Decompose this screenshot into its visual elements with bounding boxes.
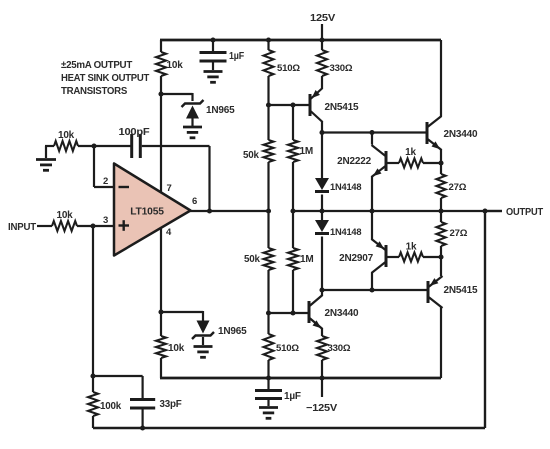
wire inverting feedback bus: [92, 226, 94, 376]
node junction pin4 / zener / 10k bottom: [158, 309, 163, 314]
svg-text:10k: 10k: [167, 60, 184, 71]
note text block: [61, 60, 150, 97]
node junction 1uF bottom on rail: [266, 375, 271, 380]
transistor Q2 2N3440 upper output: [427, 116, 442, 163]
svg-text:27Ω: 27Ω: [450, 228, 468, 239]
resistor 1M upper: [288, 105, 298, 211]
wire output lead: [485, 210, 502, 212]
resistor 1k upper: [388, 158, 442, 167]
svg-text:10k: 10k: [58, 130, 75, 141]
wire bottom -125V rail: [160, 377, 441, 380]
wire 10k to node: [78, 145, 131, 147]
resistor 27 ohm lower: [436, 211, 445, 257]
label 2N5415 upper: [325, 102, 359, 113]
transistor Q3 2N2222 current limit: [372, 133, 387, 212]
svg-text:1M: 1M: [300, 146, 314, 157]
svg-text:4: 4: [166, 227, 172, 238]
capacitor 100pF feedback: [132, 134, 141, 158]
wire input to pin 3: [77, 225, 114, 227]
ground for 1N965 bottom: [194, 347, 213, 358]
ground for 1uF bottom: [259, 400, 278, 418]
node junction 1M upper top: [290, 102, 295, 107]
resistor 10k inverting input: [54, 141, 78, 151]
capacitor 1uF bottom: [255, 378, 282, 399]
wire 100pF to output node: [142, 146, 210, 211]
wire collector feed from rail: [440, 40, 442, 117]
node junction upper base row / 510-50k: [266, 102, 271, 107]
node junction 510ohm top on rail: [266, 37, 271, 42]
svg-text:3: 3: [103, 215, 108, 226]
op-amp plus sign: [119, 220, 130, 231]
node junction 50k resistors: [266, 208, 271, 213]
transistor Q6 2N3440 lower driver: [309, 290, 323, 336]
pin 3 label: [103, 215, 108, 226]
node junction feedback RC top: [90, 373, 95, 378]
wire -125V supply stub: [321, 378, 323, 397]
node junction lower collector node: [319, 287, 324, 292]
label 1uF top: [229, 51, 244, 62]
node junction 33pF bottom: [140, 425, 145, 430]
svg-text:2N2907: 2N2907: [339, 253, 373, 264]
diode D1 1N4148 upper: [315, 133, 329, 212]
label 2N5415 lower: [444, 285, 478, 296]
svg-text:2N5415: 2N5415: [444, 285, 478, 296]
resistor 10k top-left supply dropper: [156, 40, 166, 94]
svg-text:10k: 10k: [168, 343, 185, 354]
label 50k upper: [243, 150, 259, 161]
label 1N965 bottom: [218, 326, 247, 337]
ground for 1N965 top: [183, 127, 202, 138]
node junction diode midpoint on output: [319, 208, 324, 213]
wire input lead: [37, 225, 52, 227]
wire lower driver base row: [269, 312, 308, 314]
svg-text:7: 7: [166, 183, 171, 194]
svg-text:1µF: 1µF: [284, 391, 301, 402]
capacitor 33pF feedback: [130, 400, 155, 409]
node junction 1M output rail: [290, 208, 295, 213]
resistor 510 ohm top: [264, 40, 274, 105]
svg-text:±25mA OUTPUT: ±25mA OUTPUT: [61, 60, 133, 71]
wire top +125V rail: [160, 39, 441, 42]
label 50k lower: [244, 254, 260, 265]
pin 2 label: [103, 176, 108, 187]
label 10k inverting: [58, 130, 75, 141]
node junction 1M lower bottom: [290, 310, 295, 315]
label 100k: [100, 401, 122, 412]
label 27 ohm upper: [449, 182, 467, 193]
diode D2 1N4148 lower: [315, 211, 329, 290]
label 27 ohm lower: [450, 228, 468, 239]
svg-text:33pF: 33pF: [160, 399, 182, 410]
label 2N2907: [339, 253, 373, 264]
node junction 2N3440 emitter / 1k: [438, 160, 443, 165]
resistor 330 ohm bottom: [317, 336, 327, 378]
wire lower collector row: [322, 289, 427, 291]
svg-text:100k: 100k: [100, 401, 122, 412]
svg-text:1k: 1k: [406, 242, 417, 253]
svg-text:−125V: −125V: [306, 403, 338, 414]
node junction 1uF top on rail: [210, 37, 215, 42]
wire feedback right riser: [484, 211, 486, 428]
label 1uF bottom: [284, 391, 301, 402]
resistor 100k feedback: [88, 376, 98, 428]
resistor 50k upper: [264, 105, 274, 211]
resistor 1M lower: [288, 211, 298, 313]
label OUTPUT: [506, 207, 544, 218]
label 330 ohm bottom: [328, 343, 351, 354]
op-amp minus sign: [119, 186, 130, 188]
svg-text:27Ω: 27Ω: [449, 182, 467, 193]
label 2N3440 upper: [444, 129, 478, 140]
node junction upper collector node: [319, 130, 324, 135]
node junction 2N2222 collector: [369, 130, 374, 135]
wire feedback bottom run: [93, 427, 485, 429]
svg-text:1N965: 1N965: [218, 326, 247, 337]
zener diode 1N965 top: [182, 100, 204, 119]
svg-text:330Ω: 330Ω: [330, 63, 353, 74]
label 100pF: [119, 127, 150, 138]
label 1M lower: [300, 254, 314, 265]
node junction 27 ohm lower / 1k: [438, 254, 443, 259]
label LT1055: [130, 207, 164, 218]
label 10k bottom: [168, 343, 185, 354]
label 1k upper: [405, 147, 416, 158]
label 2N3440 lower: [325, 308, 359, 319]
wire 10k to ground: [45, 146, 54, 158]
zener diode 1N965 bottom: [192, 321, 214, 340]
wire zener to ground: [191, 118, 193, 126]
svg-text:125V: 125V: [310, 13, 336, 24]
svg-text:6: 6: [192, 196, 197, 207]
svg-text:330Ω: 330Ω: [328, 343, 351, 354]
svg-text:INPUT: INPUT: [8, 222, 37, 233]
pin 4 label: [166, 227, 172, 238]
label 33pF: [160, 399, 182, 410]
label 1N965 top: [206, 105, 235, 116]
wire upper driver base row: [269, 104, 309, 106]
op-amp U1 LT1055 body: [114, 164, 191, 256]
node junction pin2 / 100pF: [91, 143, 96, 148]
node junction 27 ohm upper on output: [438, 208, 443, 213]
svg-text:510Ω: 510Ω: [276, 343, 299, 354]
label 1k lower: [406, 242, 417, 253]
resistor 50k lower: [264, 211, 274, 313]
wire to zener bottom: [161, 311, 203, 321]
svg-text:510Ω: 510Ω: [277, 63, 300, 74]
svg-text:1N965: 1N965: [206, 105, 235, 116]
label -125V supply: [306, 403, 338, 414]
resistor 1k lower: [388, 252, 442, 261]
ground for 10k inverting: [36, 160, 56, 171]
node junction emitters on output: [369, 208, 374, 213]
label INPUT: [8, 222, 37, 233]
svg-text:1N4148: 1N4148: [330, 227, 361, 237]
svg-text:2N3440: 2N3440: [325, 308, 359, 319]
svg-text:HEAT SINK OUTPUT: HEAT SINK OUTPUT: [61, 73, 150, 84]
resistor 510 ohm bottom: [264, 313, 274, 378]
wire pin 2 drop: [94, 146, 114, 187]
label 510 ohm bottom: [276, 343, 299, 354]
pin 6 label: [192, 196, 197, 207]
wire pin 4 supply: [160, 227, 162, 313]
svg-text:50k: 50k: [243, 150, 259, 161]
wire pin 7 supply: [160, 94, 162, 193]
wire 33pF to bottom: [142, 409, 144, 428]
svg-text:2N5415: 2N5415: [325, 102, 359, 113]
resistor 330 ohm top: [317, 40, 327, 89]
svg-text:OUTPUT: OUTPUT: [506, 207, 544, 218]
svg-text:LT1055: LT1055: [130, 207, 164, 218]
node junction -125V stub on rail: [319, 375, 324, 380]
svg-text:1k: 1k: [405, 147, 416, 158]
label 1M upper: [300, 146, 314, 157]
node junction feedback takeoff: [482, 208, 487, 213]
node junction 10k / zener / pin7: [158, 91, 163, 96]
label 10k input: [56, 210, 73, 221]
wire to 33pF: [93, 376, 143, 399]
label 1N4148 lower: [330, 227, 361, 237]
transistor Q5 2N5415 lower output: [428, 257, 443, 378]
transistor Q1 2N5415 upper driver: [310, 88, 323, 133]
svg-text:2N2222: 2N2222: [337, 156, 371, 167]
wire zener bottom to ground: [202, 337, 204, 345]
capacitor C1 1uF top: [200, 40, 227, 61]
transistor Q4 2N2907 current limit: [372, 211, 387, 290]
node junction 2N2907 collector: [369, 287, 374, 292]
svg-text:1M: 1M: [300, 254, 314, 265]
node junction lower base row / 50k-510: [266, 310, 271, 315]
resistor 27 ohm upper: [436, 163, 445, 211]
wire output rail: [293, 210, 502, 212]
wire pin 6 output: [190, 210, 269, 212]
resistor 10k bottom supply dropper: [156, 312, 166, 378]
label 125V supply: [310, 13, 336, 24]
svg-text:50k: 50k: [244, 254, 260, 265]
node junction 125V stub on rail: [319, 37, 324, 42]
svg-text:2: 2: [103, 176, 108, 187]
wire to zener top: [161, 93, 193, 101]
svg-text:TRANSISTORS: TRANSISTORS: [61, 86, 127, 97]
resistor 10k input: [52, 221, 77, 231]
svg-text:1µF: 1µF: [229, 51, 244, 62]
label 510 ohm top: [277, 63, 300, 74]
label 2N2222: [337, 156, 371, 167]
svg-text:2N3440: 2N3440: [444, 129, 478, 140]
node junction input / feedback: [90, 223, 95, 228]
ground for C1: [204, 63, 223, 83]
pin 7 label: [166, 183, 171, 194]
wire upper collector row: [322, 131, 426, 133]
svg-text:100pF: 100pF: [119, 127, 150, 138]
label 330 ohm top: [330, 63, 353, 74]
label 1N4148 upper: [330, 182, 361, 192]
node junction feedback tap: [207, 208, 212, 213]
label 10k top: [167, 60, 184, 71]
svg-text:1N4148: 1N4148: [330, 182, 361, 192]
svg-text:10k: 10k: [56, 210, 73, 221]
wire 125V supply stub: [321, 24, 323, 40]
